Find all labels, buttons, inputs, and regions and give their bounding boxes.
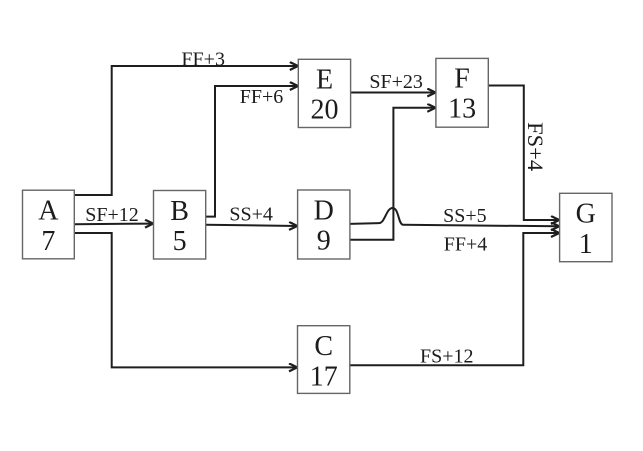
svg-text:C: C — [314, 331, 333, 362]
svg-text:20: 20 — [311, 95, 339, 126]
svg-text:B: B — [170, 196, 189, 227]
svg-text:G: G — [576, 199, 596, 230]
svg-text:FS+12: FS+12 — [420, 346, 474, 368]
svg-text:D: D — [314, 195, 334, 226]
svg-text:7: 7 — [41, 226, 55, 257]
svg-text:E: E — [316, 64, 333, 95]
svg-text:FS+4: FS+4 — [523, 122, 548, 171]
svg-text:1: 1 — [579, 229, 593, 260]
svg-text:13: 13 — [448, 94, 476, 125]
svg-text:FF+3: FF+3 — [181, 48, 225, 70]
svg-text:SS+5: SS+5 — [443, 205, 487, 227]
svg-text:FF+6: FF+6 — [240, 86, 284, 108]
svg-text:SS+4: SS+4 — [229, 204, 273, 226]
svg-text:A: A — [38, 196, 59, 227]
svg-text:FF+4: FF+4 — [444, 233, 488, 255]
svg-text:SF+23: SF+23 — [369, 71, 423, 93]
svg-text:9: 9 — [317, 226, 331, 257]
svg-text:F: F — [454, 63, 470, 94]
svg-text:5: 5 — [173, 226, 187, 257]
svg-text:SF+12: SF+12 — [85, 204, 139, 226]
svg-text:17: 17 — [310, 361, 338, 392]
